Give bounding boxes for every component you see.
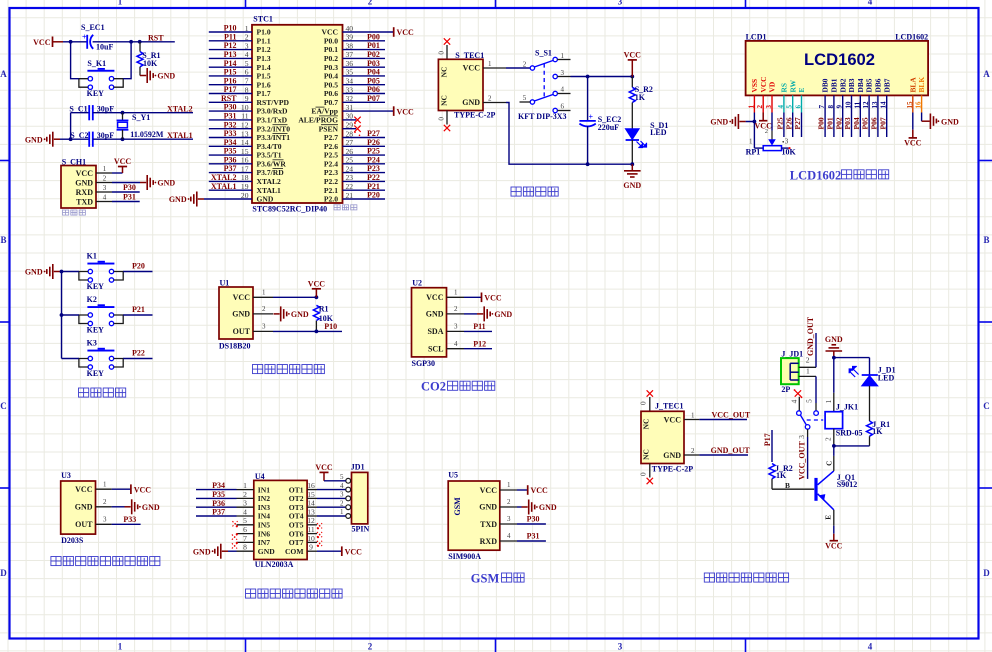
svg-text:P17: P17 xyxy=(763,433,772,446)
svg-text:16: 16 xyxy=(241,156,249,165)
svg-text:VCC: VCC xyxy=(114,157,132,166)
mcu pin names xyxy=(257,28,339,204)
svg-text:3: 3 xyxy=(103,184,107,192)
svg-text:NC: NC xyxy=(440,95,449,106)
svg-text:P11: P11 xyxy=(224,32,236,41)
lcd body xyxy=(746,41,929,96)
wire pin1 to VCC xyxy=(112,172,123,174)
svg-text:5: 5 xyxy=(786,105,794,109)
wire TEC1 pin2 to ground rail xyxy=(506,103,632,165)
svg-text:10: 10 xyxy=(845,101,853,109)
svg-text:2: 2 xyxy=(823,437,832,441)
svg-text:5: 5 xyxy=(523,94,527,102)
svg-text:4: 4 xyxy=(868,0,873,7)
svg-text:2: 2 xyxy=(368,642,373,652)
ground (lcd right) xyxy=(929,114,931,130)
svg-text:P0.7: P0.7 xyxy=(324,98,338,107)
svg-text:5: 5 xyxy=(805,399,814,403)
svg-text:6: 6 xyxy=(243,525,247,534)
svg-text:S_S1: S_S1 xyxy=(535,48,552,57)
svg-text:OT3: OT3 xyxy=(289,503,304,512)
svg-text:D: D xyxy=(983,568,990,578)
contact lever xyxy=(800,415,806,425)
mcu right pins wires and labels xyxy=(343,24,394,200)
svg-text:3: 3 xyxy=(785,138,789,146)
svg-text:1: 1 xyxy=(262,289,266,297)
wire S_EC1 to RST node xyxy=(93,41,175,43)
svg-text:1: 1 xyxy=(747,105,755,109)
lcd pin15 wire to VCC xyxy=(912,113,914,130)
svg-text:P22: P22 xyxy=(367,173,380,182)
svg-text:3: 3 xyxy=(243,499,247,508)
ground (relay) xyxy=(833,351,835,358)
svg-text:U2: U2 xyxy=(412,278,422,287)
svg-text:GND: GND xyxy=(25,268,43,277)
svg-text:37: 37 xyxy=(346,50,354,59)
svg-text:P31: P31 xyxy=(224,112,237,121)
svg-text:1: 1 xyxy=(806,367,810,376)
svg-text:VCC: VCC xyxy=(904,139,922,148)
svg-text:P36: P36 xyxy=(224,155,237,164)
svg-text:P20: P20 xyxy=(132,262,145,271)
svg-text:P10: P10 xyxy=(224,24,237,33)
svg-text:OT5: OT5 xyxy=(289,521,304,530)
svg-text:E: E xyxy=(824,515,832,520)
svg-text:XTAL2: XTAL2 xyxy=(211,173,237,182)
svg-text:J_TEC1: J_TEC1 xyxy=(655,402,683,411)
no-connect pin29 xyxy=(354,126,360,132)
svg-text:P0.1: P0.1 xyxy=(324,45,338,54)
pin 3 xyxy=(500,523,517,525)
svg-text:GND: GND xyxy=(426,310,444,319)
svg-text:P00: P00 xyxy=(367,32,380,41)
svg-text:GND: GND xyxy=(257,195,274,204)
junction node xyxy=(315,295,319,299)
no-connect J_TEC1 top xyxy=(647,390,653,396)
svg-text:GSM: GSM xyxy=(453,497,462,516)
svg-text:7: 7 xyxy=(245,77,249,86)
svg-text:VCC: VCC xyxy=(33,38,51,47)
wire S_C1 to XTAL2 xyxy=(93,112,193,114)
svg-text:SIM900A: SIM900A xyxy=(448,552,481,561)
svg-text:RXD: RXD xyxy=(480,537,498,546)
svg-text:23: 23 xyxy=(346,173,354,182)
wire switch pin3 to VCC node xyxy=(571,76,633,78)
svg-text:15: 15 xyxy=(307,490,315,499)
svg-text:2: 2 xyxy=(103,498,107,506)
svg-text:2: 2 xyxy=(262,305,266,313)
lcd pin16 wire to gnd xyxy=(921,113,923,122)
wire VCC branch to key xyxy=(71,42,79,79)
sensor U2 body xyxy=(412,288,447,357)
sensor U1 body xyxy=(219,287,253,339)
no-connect contact pin4 xyxy=(795,390,801,396)
svg-text:GND: GND xyxy=(75,503,93,512)
svg-text:3: 3 xyxy=(507,515,511,523)
no-connect U4 pin11 xyxy=(317,532,322,537)
svg-text:DB7: DB7 xyxy=(882,78,891,92)
lcd pin3 wire to pot wiper xyxy=(771,113,773,131)
svg-text:P2.7: P2.7 xyxy=(324,133,338,142)
svg-text:VCC: VCC xyxy=(825,541,843,550)
svg-text:10: 10 xyxy=(241,103,249,112)
svg-text:GND_OUT: GND_OUT xyxy=(806,316,815,356)
wire pin3 net P33 xyxy=(112,523,141,525)
potentiometer RP1 10K xyxy=(753,122,755,149)
svg-text:GND: GND xyxy=(291,310,309,319)
svg-text:3: 3 xyxy=(765,105,773,109)
pin 3 xyxy=(447,330,464,332)
svg-text:A: A xyxy=(0,69,7,79)
wire K3 to P22 xyxy=(123,358,152,360)
svg-text:VSS: VSS xyxy=(750,79,759,93)
svg-text:4: 4 xyxy=(561,86,565,94)
svg-text:COM: COM xyxy=(285,547,304,556)
svg-text:D: D xyxy=(0,568,7,578)
svg-text:P15: P15 xyxy=(224,68,237,77)
svg-text:33: 33 xyxy=(346,85,354,94)
wires U4 outputs to JD1 xyxy=(317,490,346,516)
svg-text:RS: RS xyxy=(780,83,789,92)
svg-text:P10: P10 xyxy=(324,322,337,331)
svg-text:18: 18 xyxy=(241,173,249,182)
svg-text:DB4: DB4 xyxy=(856,78,865,92)
svg-text:KEY: KEY xyxy=(87,325,105,334)
svg-text:P33: P33 xyxy=(123,515,136,524)
svg-text:IN2: IN2 xyxy=(258,494,270,503)
junction node xyxy=(630,162,634,166)
mcu pin 20 wire xyxy=(204,198,252,200)
svg-text:P06: P06 xyxy=(367,85,380,94)
svg-text:P07: P07 xyxy=(367,94,380,103)
svg-text:2: 2 xyxy=(765,128,768,135)
svg-text:SGP30: SGP30 xyxy=(412,359,436,368)
svg-text:10K: 10K xyxy=(782,148,797,157)
svg-text:GND: GND xyxy=(663,451,681,460)
svg-text:P3.7/RD: P3.7/RD xyxy=(257,168,285,177)
svg-text:P3.2/INT0: P3.2/INT0 xyxy=(257,124,291,133)
svg-text:K3: K3 xyxy=(87,339,97,348)
svg-text:9: 9 xyxy=(836,105,844,109)
svg-text:P30: P30 xyxy=(527,515,540,524)
svg-text:19: 19 xyxy=(241,182,249,191)
svg-text:P26: P26 xyxy=(367,138,380,147)
svg-text:11: 11 xyxy=(307,525,315,534)
junction node xyxy=(60,313,64,317)
wire J_R1 to collector node xyxy=(834,445,870,447)
svg-text:LCD1: LCD1 xyxy=(746,32,767,41)
contact link dashed xyxy=(807,419,824,421)
svg-text:P1.0: P1.0 xyxy=(257,28,271,37)
svg-text:RST: RST xyxy=(148,34,164,43)
svg-text:IN3: IN3 xyxy=(258,503,270,512)
svg-text:TYPE-C-2P: TYPE-C-2P xyxy=(454,111,495,120)
svg-text:VCC: VCC xyxy=(531,486,549,495)
svg-text:IN5: IN5 xyxy=(258,521,270,530)
svg-text:S_C1: S_C1 xyxy=(69,104,87,113)
svg-text:2: 2 xyxy=(488,95,492,103)
no-connect U4 pin12 xyxy=(317,523,322,528)
svg-text:7: 7 xyxy=(818,105,826,109)
svg-text:KEY: KEY xyxy=(87,369,105,378)
label relay circuit xyxy=(704,573,788,582)
svg-text:0: 0 xyxy=(639,472,647,476)
pin 4 xyxy=(96,201,112,203)
svg-text:XTAL1: XTAL1 xyxy=(257,186,282,195)
svg-text:GND: GND xyxy=(539,503,557,512)
svg-text:9: 9 xyxy=(245,94,249,103)
ground (keys) xyxy=(54,271,60,273)
svg-text:P0.0: P0.0 xyxy=(324,36,338,45)
svg-text:P1.3: P1.3 xyxy=(257,54,271,63)
svg-text:15: 15 xyxy=(906,101,914,109)
junction node xyxy=(69,137,73,141)
svg-text:A: A xyxy=(983,69,990,79)
mcu pin name overbars xyxy=(273,107,339,169)
svg-text:GSM: GSM xyxy=(471,572,500,586)
svg-text:40: 40 xyxy=(346,24,354,33)
svg-text:17: 17 xyxy=(241,164,249,173)
junction node xyxy=(138,40,142,44)
power port VCC (U1) xyxy=(315,289,317,298)
svg-text:10: 10 xyxy=(307,534,315,543)
ground (mcu pin20) xyxy=(198,198,204,200)
svg-text:13: 13 xyxy=(871,101,879,109)
svg-text:C: C xyxy=(0,401,7,411)
svg-text:P02: P02 xyxy=(834,117,843,129)
wire VCC to S_EC1 xyxy=(63,41,87,43)
svg-text:3: 3 xyxy=(797,435,806,439)
svg-text:39: 39 xyxy=(346,33,354,42)
svg-text:5: 5 xyxy=(243,516,247,525)
svg-text:J_JK1: J_JK1 xyxy=(836,402,858,411)
svg-text:P16: P16 xyxy=(224,76,237,85)
wire keys trunk xyxy=(61,272,63,359)
svg-text:LCD1602: LCD1602 xyxy=(895,32,928,41)
svg-text:KFT DIP-3X3: KFT DIP-3X3 xyxy=(518,112,567,121)
no-connect J_TEC1 bottom xyxy=(649,464,651,478)
svg-text:P1.4: P1.4 xyxy=(257,63,271,72)
junction node xyxy=(630,75,634,79)
no-connect U4 pin10 xyxy=(317,541,322,546)
wire base xyxy=(772,488,814,490)
svg-text:CO2: CO2 xyxy=(421,380,446,394)
svg-text:RP1: RP1 xyxy=(746,147,761,156)
label power circuit xyxy=(511,187,558,196)
svg-text:14: 14 xyxy=(241,138,249,147)
svg-text:VCC: VCC xyxy=(134,485,152,494)
wire net P17 xyxy=(771,430,773,462)
svg-text:P21: P21 xyxy=(367,182,380,191)
svg-text:OT7: OT7 xyxy=(289,538,304,547)
pin 1 xyxy=(684,419,699,421)
svg-text:OT2: OT2 xyxy=(289,494,304,503)
svg-text:GND: GND xyxy=(193,547,211,556)
no-connect pin30 xyxy=(354,117,360,123)
svg-text:VCC: VCC xyxy=(397,107,415,116)
ground (U5) xyxy=(522,506,528,508)
svg-text:P2.1: P2.1 xyxy=(324,186,338,195)
ground (U3) xyxy=(125,506,131,508)
svg-text:2: 2 xyxy=(507,498,511,506)
svg-text:2: 2 xyxy=(756,105,764,109)
svg-text:11: 11 xyxy=(241,112,249,121)
wire gnd to relay coil xyxy=(833,358,835,393)
svg-text:29: 29 xyxy=(346,121,354,130)
svg-text:GND: GND xyxy=(157,72,175,81)
svg-text:DS18B20: DS18B20 xyxy=(219,341,251,350)
svg-text:P1.7: P1.7 xyxy=(257,89,271,98)
svg-text:4: 4 xyxy=(243,507,247,516)
J_JD1 pin 1 xyxy=(799,375,816,377)
svg-text:2: 2 xyxy=(245,33,249,42)
pin 4 xyxy=(447,348,464,350)
svg-text:12: 12 xyxy=(862,101,870,109)
svg-text:NC: NC xyxy=(642,419,651,430)
resistor R1 10K xyxy=(313,305,319,320)
svg-text:C: C xyxy=(983,401,990,411)
svg-text:3: 3 xyxy=(340,491,344,499)
svg-text:B: B xyxy=(983,235,989,245)
svg-text:U1: U1 xyxy=(220,278,230,287)
svg-text:P32: P32 xyxy=(224,120,237,129)
svg-text:U5: U5 xyxy=(448,471,458,480)
svg-text:0: 0 xyxy=(639,401,647,405)
svg-text:1: 1 xyxy=(507,481,511,489)
wire led to J_R1 xyxy=(869,386,871,421)
svg-text:P12: P12 xyxy=(224,41,237,50)
svg-text:BLA: BLA xyxy=(908,77,917,93)
pin 2 xyxy=(253,313,273,315)
svg-text:3: 3 xyxy=(454,323,458,331)
wire key to RST xyxy=(123,42,131,79)
svg-text:OT1: OT1 xyxy=(289,485,304,494)
pin 4 xyxy=(500,540,517,542)
svg-text:DB1: DB1 xyxy=(830,78,839,92)
svg-text:1: 1 xyxy=(118,0,123,7)
svg-text:LCD1602: LCD1602 xyxy=(804,50,875,69)
svg-text:GND: GND xyxy=(479,503,497,512)
svg-text:14: 14 xyxy=(307,499,315,508)
switch stubs xyxy=(557,59,570,61)
svg-text:4: 4 xyxy=(777,105,785,109)
svg-text:220uF: 220uF xyxy=(598,123,619,132)
wire pin3 net P30 xyxy=(517,523,546,525)
svg-text:2: 2 xyxy=(691,447,695,455)
svg-text:P14: P14 xyxy=(224,59,237,68)
svg-text:P3.6/WR: P3.6/WR xyxy=(257,159,287,168)
svg-text:RST/VPD: RST/VPD xyxy=(257,98,290,107)
pin 1 xyxy=(483,67,506,69)
svg-text:8: 8 xyxy=(243,543,247,552)
resistor S_R1 10K xyxy=(139,42,141,52)
svg-text:IN1: IN1 xyxy=(258,485,270,494)
wire pin3 net P30 xyxy=(112,191,140,193)
svg-text:P22: P22 xyxy=(132,349,145,358)
svg-text:XTAL2: XTAL2 xyxy=(257,177,282,186)
svg-text:P06: P06 xyxy=(870,117,879,129)
wire pin1 to VCC xyxy=(464,296,481,298)
svg-text:5PIN: 5PIN xyxy=(352,524,370,533)
svg-text:P03: P03 xyxy=(367,59,380,68)
svg-text:BLK: BLK xyxy=(917,77,926,93)
svg-text:P04: P04 xyxy=(852,117,861,129)
label stepper motor xyxy=(246,589,343,598)
svg-text:ALE/PROG: ALE/PROG xyxy=(298,116,338,125)
svg-text:VCC: VCC xyxy=(345,547,363,556)
wire pin1 to VCC xyxy=(112,488,131,490)
pin 2 xyxy=(96,506,112,508)
svg-text:24: 24 xyxy=(346,164,354,173)
svg-text:GND: GND xyxy=(157,179,175,188)
led J_D1 xyxy=(869,358,871,375)
emitter wire xyxy=(833,510,835,526)
power port VCC (U5) xyxy=(527,485,529,495)
ground (reset) xyxy=(140,75,146,77)
svg-text:IN7: IN7 xyxy=(258,538,270,547)
svg-text:IN6: IN6 xyxy=(258,529,270,538)
svg-text:P27: P27 xyxy=(367,129,380,138)
svg-text:2: 2 xyxy=(368,0,373,7)
svg-text:1: 1 xyxy=(749,138,753,146)
svg-text:P3.4/T0: P3.4/T0 xyxy=(257,142,282,151)
junction node xyxy=(121,111,125,115)
svg-text:1: 1 xyxy=(103,480,107,488)
wire pin2 to GND xyxy=(112,506,125,508)
svg-text:P1.5: P1.5 xyxy=(257,72,271,81)
wire S_C2 to XTAL1 xyxy=(93,138,193,140)
svg-text:2: 2 xyxy=(523,60,527,68)
label download-port xyxy=(63,210,86,215)
svg-text:SCL: SCL xyxy=(428,344,444,353)
svg-text:P2.3: P2.3 xyxy=(324,168,338,177)
label key circuit xyxy=(79,388,126,397)
svg-text:P3.3/INT1: P3.3/INT1 xyxy=(257,133,291,142)
svg-text:13: 13 xyxy=(307,507,315,516)
svg-text:OUT: OUT xyxy=(75,520,93,529)
wire gnd to led column xyxy=(834,357,870,359)
svg-text:VCC: VCC xyxy=(759,76,768,92)
svg-text:K1: K1 xyxy=(87,252,97,261)
no-connect S_TEC1 top xyxy=(444,38,450,44)
svg-text:1: 1 xyxy=(245,24,249,33)
resistor J_R2 1K xyxy=(769,464,775,479)
wire TEC1 pin1 to switch xyxy=(506,67,530,69)
led S_D1 xyxy=(626,129,639,139)
svg-text:VCC: VCC xyxy=(664,415,682,424)
junction node xyxy=(60,270,64,274)
driver U4 body xyxy=(254,480,307,559)
mcu STC1 body xyxy=(252,25,343,203)
svg-text:12: 12 xyxy=(241,121,249,130)
svg-text:VCC: VCC xyxy=(426,293,444,302)
svg-text:DB2: DB2 xyxy=(838,78,847,92)
svg-text:GND: GND xyxy=(825,335,843,344)
power port VCC (S_CH1) xyxy=(122,167,124,174)
label temperature module xyxy=(253,365,325,374)
svg-text:P05: P05 xyxy=(367,76,380,85)
svg-text:P1.6: P1.6 xyxy=(257,80,271,89)
svg-text:25: 25 xyxy=(346,156,354,165)
mcu left pins wires and labels xyxy=(209,24,252,200)
pin 1 xyxy=(253,296,273,298)
svg-text:P12: P12 xyxy=(473,339,486,348)
svg-text:RW: RW xyxy=(788,79,797,92)
svg-text:3: 3 xyxy=(561,69,565,77)
svg-text:P23: P23 xyxy=(367,164,380,173)
svg-text:7: 7 xyxy=(243,534,247,543)
svg-text:P05: P05 xyxy=(861,117,870,129)
